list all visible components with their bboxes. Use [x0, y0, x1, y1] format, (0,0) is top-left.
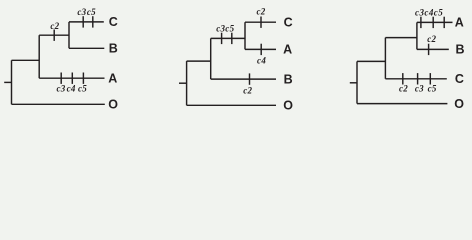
tree3 root vertical: [356, 61, 358, 103]
tree3 tick c5 on C: [429, 73, 431, 84]
tree3 tick c2 on C: [402, 73, 404, 84]
tree1 tick c4 on A: [71, 73, 73, 84]
tree2 branch to CA node: [211, 37, 245, 39]
tree1 branch A: [39, 77, 104, 79]
tree1 root vertical: [11, 60, 13, 104]
svg-text:c2: c2: [427, 34, 436, 44]
tree2 root vertical: [186, 61, 188, 105]
svg-text:c3c5: c3c5: [216, 23, 234, 33]
tree2 branch B: [211, 78, 276, 80]
tree1 node1 vertical: [38, 35, 40, 78]
svg-text:c5: c5: [87, 7, 96, 17]
tree1 tick c3 on C: [82, 16, 84, 27]
svg-text:c2: c2: [256, 7, 265, 17]
tree3 AB node vertical: [416, 22, 418, 49]
svg-text:C: C: [284, 16, 293, 30]
tree2 branch O: [187, 104, 276, 106]
svg-text:O: O: [283, 99, 293, 113]
tree1 root to node1: [12, 59, 40, 61]
tree2 tick c4 on A: [260, 44, 262, 55]
tree1 tick c2: [53, 30, 55, 41]
tree2 CA node vertical: [244, 22, 246, 49]
svg-text:c3: c3: [415, 84, 424, 94]
svg-text:O: O: [108, 98, 118, 112]
tree3 branch A: [417, 21, 453, 23]
tree1 branch to CB node: [39, 34, 69, 36]
tree2 tick c3: [221, 33, 223, 44]
tree2 root to node2: [187, 60, 211, 62]
tree1 tick c5 on A: [82, 73, 84, 84]
svg-text:c3c4c5: c3c4c5: [415, 8, 443, 18]
tree2 tick c2 on C: [260, 17, 262, 28]
tree1 root stub: [4, 81, 11, 83]
tree3 root stub: [350, 82, 357, 84]
svg-text:C: C: [109, 15, 118, 29]
tree3 branch C: [385, 78, 446, 80]
tree3 tick c5 on A: [443, 17, 445, 28]
svg-text:c2: c2: [243, 85, 252, 95]
tree1 tick c3 on A: [60, 73, 62, 84]
svg-text:C: C: [455, 72, 464, 86]
tree2 tick c2 on B: [249, 73, 251, 84]
svg-text:c2: c2: [50, 21, 59, 31]
tree2 branch A: [245, 48, 276, 50]
svg-text:A: A: [455, 16, 464, 30]
svg-text:c3: c3: [77, 7, 86, 17]
tree3 branch O: [357, 103, 447, 105]
tree2 branch C: [245, 21, 276, 23]
svg-text:c4: c4: [257, 56, 266, 66]
svg-text:c4: c4: [67, 83, 76, 93]
tree3 node1 vertical: [384, 38, 386, 79]
svg-text:A: A: [108, 72, 117, 86]
tree3 branch to AB node: [385, 37, 417, 39]
svg-text:c5: c5: [428, 84, 437, 94]
svg-text:A: A: [283, 43, 292, 57]
tree1 tick c5 on C: [92, 16, 94, 27]
svg-text:c3: c3: [56, 83, 65, 93]
svg-text:c2: c2: [399, 84, 408, 94]
tree3 tick c3 on A: [420, 17, 422, 28]
svg-text:B: B: [109, 42, 118, 56]
svg-text:O: O: [454, 97, 464, 111]
tree3 root to node1: [357, 60, 385, 62]
tree2 root stub: [179, 82, 187, 84]
tree3 tick c2 on B: [428, 44, 430, 55]
tree1 branch C: [69, 21, 104, 23]
tree1 CB node vertical: [68, 22, 70, 48]
tree1 branch O: [12, 103, 105, 105]
svg-text:B: B: [284, 72, 293, 86]
svg-text:c5: c5: [78, 83, 87, 93]
svg-text:B: B: [456, 43, 465, 57]
tree2 tick c5: [231, 33, 233, 44]
tree2 node2 vertical: [210, 38, 212, 79]
tree3 tick c4 on A: [432, 17, 434, 28]
tree3 branch B: [417, 48, 449, 50]
tree3 tick c3 on C: [417, 73, 419, 84]
tree1 branch B: [69, 47, 104, 49]
